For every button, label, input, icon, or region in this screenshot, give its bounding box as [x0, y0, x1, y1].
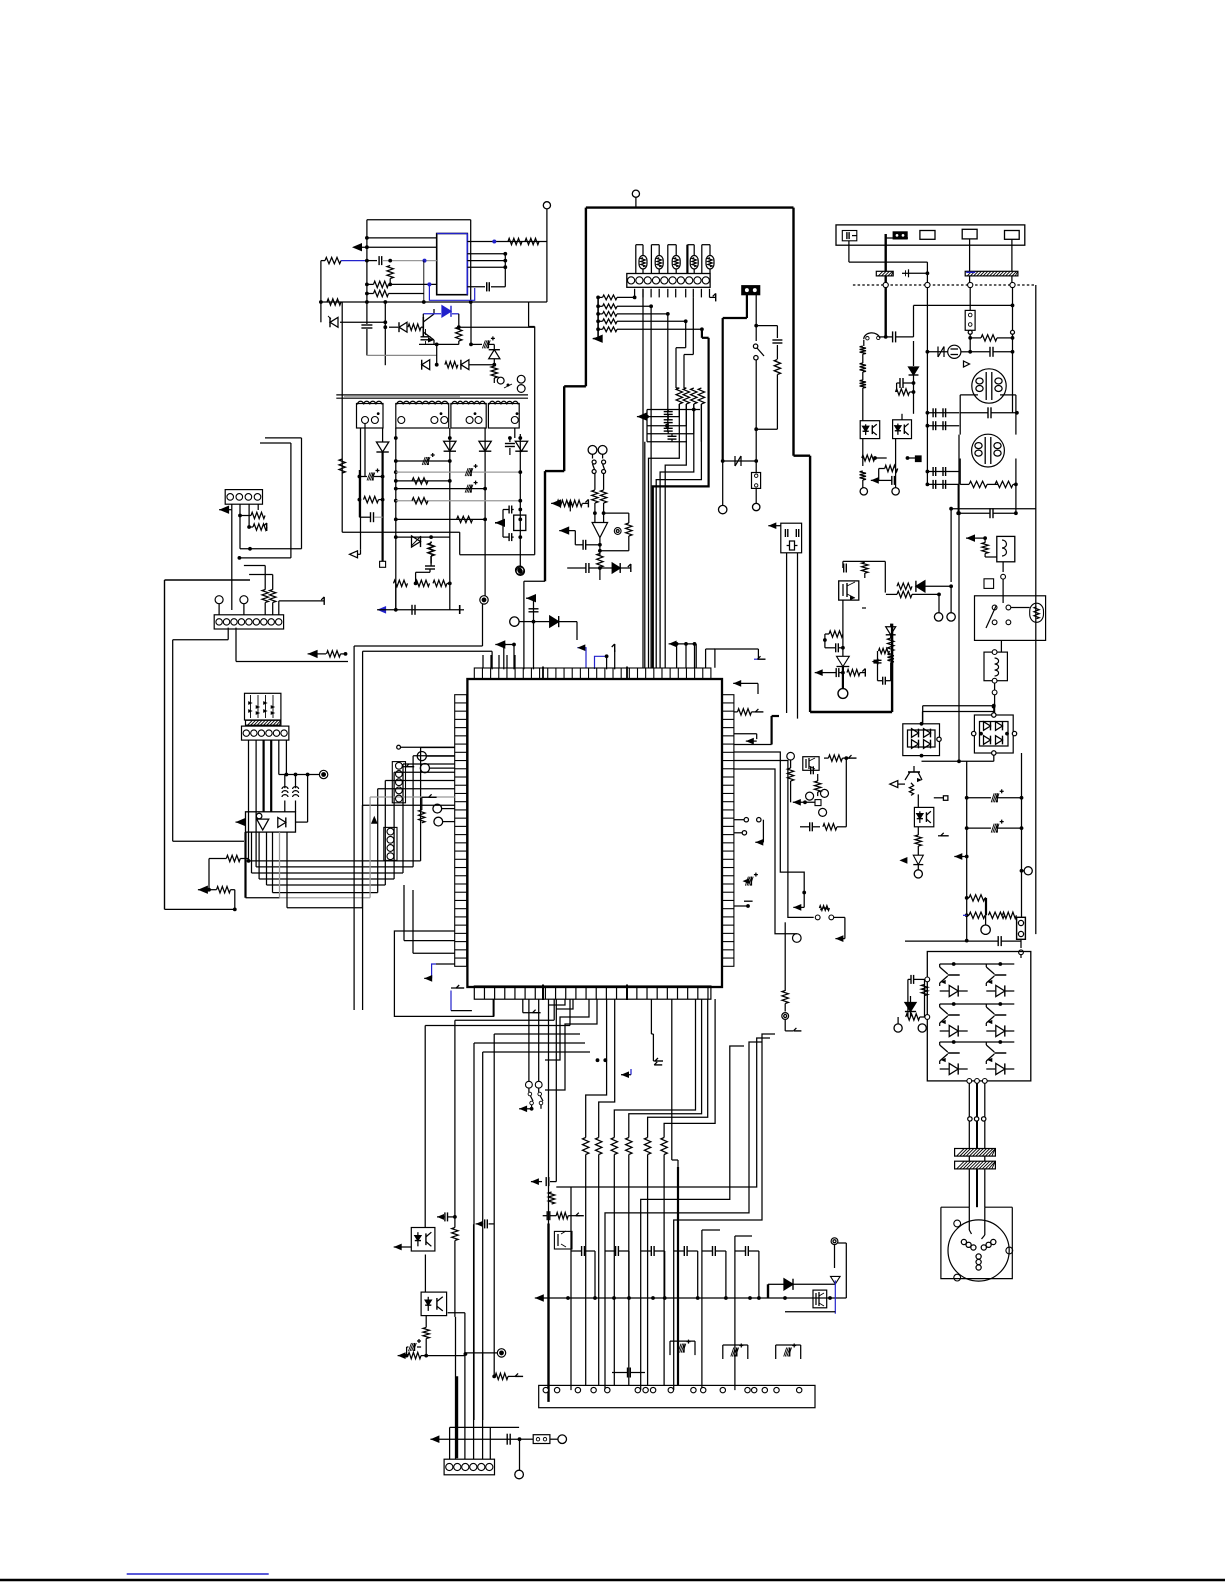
wire [927, 351, 948, 353]
capacitor C25 [508, 506, 510, 514]
resistor R50 [981, 335, 997, 341]
wire [785, 1311, 835, 1313]
wire thick [244, 832, 246, 898]
diode bridge DB1 [903, 724, 940, 756]
resistor R66 [888, 654, 894, 663]
IGBT Q61 [994, 1014, 1006, 1016]
electrolytic C70 [670, 1340, 695, 1342]
capacitor C64 [809, 822, 811, 831]
polarized end [459, 605, 461, 614]
wire [249, 574, 273, 576]
node [1011, 330, 1015, 334]
wire [863, 340, 865, 346]
ground mosfet [859, 589, 862, 591]
wire [459, 532, 461, 555]
wire [470, 302, 472, 344]
ferrite bar [955, 1149, 996, 1157]
ground [587, 499, 589, 507]
wire [239, 516, 241, 549]
wire [533, 598, 535, 669]
resistor R33 [262, 590, 268, 603]
wire [413, 952, 455, 954]
node [518, 1437, 522, 1441]
resistor R25 [339, 459, 345, 473]
wire [678, 386, 680, 404]
zener D42 [837, 656, 850, 666]
terminal [860, 488, 867, 495]
wire [321, 260, 325, 262]
wire [367, 237, 437, 239]
wire [926, 288, 928, 486]
capacitor C34 [529, 608, 539, 610]
wire [358, 428, 360, 470]
wire [914, 304, 1013, 306]
net arrow [593, 335, 603, 343]
zener D25 [412, 536, 421, 547]
zener D16 [489, 350, 500, 359]
wire [957, 484, 959, 513]
resistor R62 [897, 591, 912, 597]
ground small [902, 272, 909, 274]
net arrow [733, 680, 741, 687]
capacitor C13 [378, 256, 380, 265]
blue pin wire [436, 963, 455, 965]
wire [395, 428, 397, 610]
ground [715, 293, 717, 301]
blue underline [127, 1573, 269, 1575]
wire [361, 246, 437, 248]
connector CN11 [533, 1435, 550, 1444]
wire [940, 963, 1015, 965]
opto array CN4 [245, 693, 281, 720]
wire [467, 241, 547, 243]
electrolytic C65 [750, 877, 752, 886]
ground [755, 711, 763, 713]
resistor R57 [862, 455, 875, 461]
capacitor C42 [987, 407, 989, 418]
transformer T1 winding 4 [488, 404, 519, 429]
wire [957, 456, 959, 485]
wire [845, 1243, 847, 1298]
wire thick [842, 667, 844, 689]
pin wire [757, 649, 759, 659]
ground [734, 892, 748, 894]
hatched fuse [876, 271, 893, 276]
transistor pair [554, 1231, 572, 1249]
hatched bar [246, 720, 281, 725]
node [516, 566, 524, 574]
diode D21 [376, 442, 388, 452]
wire [436, 302, 438, 314]
wire [968, 1207, 970, 1230]
terminal sq [943, 796, 948, 801]
wire [1000, 622, 1002, 640]
wire [235, 628, 237, 662]
opto U9 [421, 1292, 447, 1316]
wire [606, 656, 608, 669]
wire [968, 1083, 970, 1207]
node [632, 190, 639, 197]
zener D44 [913, 855, 923, 864]
resistor drops [585, 1155, 587, 1386]
module pins [925, 977, 930, 982]
resistor R83 [815, 781, 821, 792]
resistor R44 [626, 523, 632, 536]
wire [449, 428, 451, 585]
resistor R34 [270, 590, 276, 603]
wire [519, 434, 521, 567]
ground [849, 757, 857, 759]
connector CN7 [752, 473, 761, 489]
wire [864, 578, 866, 586]
wire [969, 352, 971, 369]
wire [969, 330, 971, 352]
rails [966, 761, 968, 940]
wire thick [677, 1167, 679, 1385]
inverter module [927, 952, 1031, 1081]
resistor R29 [416, 580, 430, 586]
terminal [793, 934, 802, 943]
resistor R31 [251, 512, 265, 518]
dashed bus [853, 284, 1036, 286]
net arrow [308, 650, 318, 658]
net arrow [495, 519, 505, 527]
resistor R53 [860, 380, 866, 388]
wire [404, 940, 455, 942]
resistor R28 [394, 580, 408, 586]
capacitor C31 [772, 339, 782, 341]
terminal [719, 505, 727, 513]
IGBT Q60 [994, 974, 1006, 976]
wire [917, 794, 919, 807]
wire [342, 531, 460, 533]
ground [406, 766, 414, 768]
electrolytic small [752, 883, 760, 885]
wire [905, 940, 967, 942]
diode D12 [399, 322, 407, 332]
wire [416, 571, 430, 573]
net arrow [835, 935, 843, 942]
resistor R26 [364, 496, 379, 502]
capacitor C66 [546, 1211, 548, 1220]
electrolytic C23 [470, 468, 472, 476]
resistor R65 [888, 638, 894, 651]
capacitor C44 [899, 378, 901, 388]
resistor R23 [412, 498, 428, 504]
connector CN2 [225, 490, 262, 505]
net arrow blue [377, 606, 386, 614]
wire rail [396, 460, 450, 462]
wire [862, 466, 864, 472]
diode bridge DB2 [974, 715, 1013, 753]
wire [940, 1041, 1015, 1043]
wire [435, 1246, 455, 1248]
opto feed wire [424, 1026, 426, 1228]
IC right pin band [722, 695, 734, 967]
step wires right of IC [734, 752, 804, 907]
wire [363, 650, 493, 652]
connector CN1 [627, 274, 710, 288]
wire thick [746, 295, 748, 318]
wire [885, 337, 887, 338]
resistor R81 [787, 768, 793, 781]
IC left pin band [455, 695, 467, 967]
terminal [753, 503, 760, 510]
resistor R38 [774, 360, 780, 375]
wire [389, 279, 391, 285]
wire [396, 536, 431, 538]
capacitor C15 [361, 324, 372, 326]
net arrow [793, 904, 801, 911]
resistor R40 [592, 490, 598, 503]
left pin staircase [556, 999, 573, 1009]
resistor R56 [896, 389, 910, 395]
thermistor pair [588, 446, 597, 455]
gray fan wire [369, 797, 371, 898]
fuse N1 [723, 460, 750, 462]
blue tick [621, 1074, 631, 1076]
mosfet Q21 [514, 515, 526, 530]
transformer T3 frame [959, 459, 961, 485]
bus [430, 1435, 439, 1443]
wire [524, 569, 544, 571]
wire [938, 594, 940, 612]
connector CN8 [893, 232, 907, 239]
wire [503, 645, 505, 670]
cap drops [570, 1251, 572, 1390]
wire thick [885, 288, 887, 337]
IC top pin wires [482, 655, 484, 668]
capacitor C26 [508, 533, 510, 541]
resistor links [566, 1296, 570, 1300]
wire [1020, 939, 1022, 948]
mosfet source parts [842, 600, 844, 634]
node [319, 770, 327, 778]
wire [393, 832, 454, 834]
wire [843, 560, 885, 562]
resistor R63 [829, 631, 843, 637]
wire [705, 649, 707, 668]
left fan wires [420, 748, 422, 861]
wire [795, 762, 803, 764]
diode D43 [886, 627, 896, 635]
open tri [890, 781, 898, 788]
wire [459, 532, 461, 555]
diode D24 [515, 441, 527, 451]
wire rail [396, 500, 521, 502]
wire [969, 288, 971, 311]
resistor R75 [906, 1014, 920, 1020]
ground [576, 1215, 584, 1217]
terminal [434, 817, 443, 826]
ground [266, 523, 268, 531]
resistor R61 [897, 583, 912, 589]
wire [762, 820, 764, 843]
transformer T1 primary [497, 377, 504, 384]
IGBT Q62 [994, 1052, 1006, 1054]
wire [307, 775, 309, 823]
wire [384, 302, 386, 365]
ground [758, 658, 766, 660]
connector CN14 [384, 827, 397, 860]
capacitor C21 [505, 443, 515, 445]
wire [950, 509, 952, 582]
wire [756, 325, 777, 327]
wire [921, 756, 923, 762]
wire [518, 508, 522, 512]
ground [630, 564, 632, 572]
wire [514, 428, 516, 438]
fuse MOV [935, 351, 944, 353]
ground [429, 796, 437, 798]
ground [941, 835, 949, 837]
electrolytic C60 [996, 793, 998, 802]
zener D11 [330, 317, 338, 327]
IC corner loop wire [394, 931, 494, 1016]
caps row 3 [927, 471, 959, 473]
wire [824, 634, 826, 648]
wire [628, 536, 630, 551]
resistor R13 [325, 257, 341, 263]
resistor R11 [508, 238, 522, 244]
terminal [934, 613, 942, 621]
capacitor C63 [910, 975, 912, 984]
net arrow [198, 886, 208, 894]
terminal [981, 925, 990, 934]
wire [969, 239, 971, 285]
terminal [433, 804, 442, 813]
ground [864, 669, 866, 677]
wire [395, 583, 397, 609]
terminal star2 [831, 1238, 838, 1245]
resistor R82 [828, 755, 842, 761]
ground [515, 1375, 523, 1377]
resistor R52 [860, 363, 866, 372]
pin circles [744, 818, 748, 822]
wire [528, 999, 530, 1081]
connector CN6 [742, 286, 760, 295]
crystal X1 [781, 523, 802, 553]
terminal [914, 870, 922, 878]
wire [164, 580, 166, 909]
transformer T1 winding 1 [357, 404, 384, 429]
open node [397, 745, 401, 749]
net arrow [526, 594, 536, 602]
node [215, 596, 223, 604]
crystal wires [786, 553, 788, 713]
wire [901, 414, 903, 420]
capacitor C40 [892, 331, 894, 342]
capacitor C43 [989, 508, 991, 518]
jumper [815, 800, 821, 806]
capacitor C41 [989, 347, 991, 357]
resistor R43 [569, 500, 582, 506]
capacitor C48 [835, 668, 837, 677]
resistor R45 [597, 553, 603, 567]
IGBT Q50 [948, 974, 960, 976]
hatched varistor [965, 271, 1018, 276]
wire [491, 651, 493, 669]
bus line [535, 1294, 544, 1302]
bottom connector CN10 [539, 1385, 815, 1407]
blue pin wire [577, 648, 586, 668]
wire [1015, 733, 1022, 735]
electrolytic C27 [372, 473, 374, 481]
wire [278, 601, 280, 615]
wire [448, 1312, 465, 1314]
comparator U4 [592, 523, 608, 538]
electrolytic C61 [996, 824, 998, 833]
transistor Q1 [422, 317, 424, 337]
wire [467, 253, 505, 255]
op-amp U2 [437, 234, 468, 295]
transformer T1 winding 2 [396, 404, 449, 429]
wire [450, 1426, 519, 1428]
relay contact box [975, 596, 1046, 641]
capacitor C33 [585, 563, 587, 573]
net arrow [398, 1352, 406, 1359]
wire [599, 579, 601, 581]
wire [518, 1427, 520, 1434]
microcontroller U1 [467, 679, 722, 987]
ground [350, 551, 358, 558]
resistor R85 [782, 991, 788, 1004]
wire [917, 865, 919, 870]
resistor R92 [419, 810, 425, 823]
wire [756, 428, 777, 430]
wire [606, 650, 608, 652]
caps row of 6 [581, 1246, 583, 1256]
resistor R42 [557, 500, 570, 506]
terminal [515, 1470, 524, 1479]
inductor L1 [284, 775, 286, 789]
terminal strip [836, 225, 1025, 245]
wire thick [885, 234, 887, 285]
capacitor C28 [370, 512, 372, 522]
wire [886, 457, 888, 459]
wire [290, 443, 292, 558]
outer box right [792, 208, 794, 456]
resistor R60 [862, 562, 868, 573]
wire [425, 1316, 427, 1328]
resistor R64 [847, 669, 860, 675]
opto U8 [411, 1228, 435, 1252]
resistor R91 [495, 1373, 508, 1379]
wire [799, 820, 801, 827]
wire thick [382, 452, 384, 561]
transformer T2 [972, 369, 1006, 403]
connector CN9 [1017, 917, 1026, 939]
resistor R72 [969, 912, 985, 918]
fuse loop [864, 333, 880, 339]
LED bank [635, 245, 637, 274]
wire [426, 1355, 465, 1357]
bundle right [641, 1046, 744, 1251]
terminal [420, 764, 429, 773]
wire [367, 354, 437, 356]
caps row 2 [927, 425, 959, 427]
open tri [964, 361, 970, 367]
wire [301, 438, 303, 549]
resistor row [583, 1138, 589, 1155]
resistor R86 [548, 1192, 554, 1204]
resistor R70 [915, 835, 921, 846]
resistor R89 [423, 1328, 429, 1339]
wire [239, 557, 291, 559]
net arrow [495, 640, 505, 648]
capacitor C62 [997, 936, 999, 946]
diode D23 [479, 441, 491, 451]
